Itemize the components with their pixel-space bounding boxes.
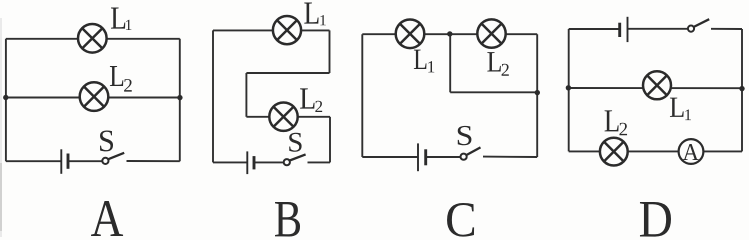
battery (circuit C) : long plate (417, 143, 419, 171)
wire C left vertical (361, 34, 363, 157)
lamp L1 (circuit A) (78, 24, 107, 53)
node A-right junction dot (177, 95, 182, 100)
wire C bottom battery-to-switch segment (426, 156, 461, 158)
lamp L2 (circuit A) (80, 82, 109, 111)
label L1 (circuit B) (304, 3, 318, 24)
node D-left junction dot (566, 85, 571, 90)
label S (circuit B) (289, 133, 301, 152)
wire B right lower vertical (329, 117, 331, 163)
switch S (circuit C) (461, 147, 481, 159)
scan edge artifact (0, 18, 2, 237)
wire D top battery-to-switch segment (628, 28, 688, 30)
wire A left vertical (5, 39, 7, 161)
battery (circuit C) : short plate (424, 149, 427, 165)
lamp L2 (circuit B) (269, 103, 297, 131)
lamp L1 (circuit D) (643, 71, 671, 99)
label A (answer) (91, 201, 123, 236)
label L2 (circuit B) (300, 88, 314, 108)
switch S (circuit B) (284, 154, 306, 165)
switch (circuit D) (688, 19, 709, 32)
node C junction dot (between lamps) (447, 31, 452, 36)
node C junction dot (right) (535, 90, 540, 95)
wire C bottom right segment (483, 156, 537, 158)
label B (answer) (275, 202, 300, 237)
wire C right vertical (536, 34, 538, 157)
label L2 (circuit A) (110, 66, 123, 86)
battery (circuit B) : short plate (253, 156, 256, 169)
wire A bottom right segment (127, 160, 180, 162)
wire D middle (569, 87, 742, 89)
wire D right vertical (741, 29, 743, 151)
lamp L2 (circuit C) (477, 19, 505, 47)
label S (circuit C) (458, 126, 472, 145)
lamp L1 (circuit B) (273, 16, 301, 44)
wire B bottom right segment (308, 161, 331, 163)
lamp L2 (circuit D) (600, 138, 628, 166)
label D (answer) (640, 202, 671, 237)
battery (circuit D) : long plate (627, 17, 629, 42)
label L1 (circuit D) (670, 98, 684, 117)
label L1 (circuit A) (111, 8, 125, 29)
wire D top right segment (711, 28, 742, 30)
battery (circuit B) : long plate (246, 151, 248, 174)
lamp L1 (circuit C) (396, 20, 425, 49)
wire C bottom left segment (362, 156, 418, 158)
wire C inner horizontal (450, 91, 537, 93)
wire B bottom battery-to-switch segment (254, 161, 284, 163)
battery (circuit D) : short plate (618, 23, 621, 37)
wire A bottom battery-to-switch segment (68, 160, 103, 162)
label L2 (circuit D) (605, 110, 619, 131)
wire B right upper vertical (329, 30, 331, 73)
label C (answer) (447, 203, 474, 237)
wire B middle horizontal (246, 72, 329, 74)
wire B top (213, 29, 330, 31)
wire D bottom (569, 150, 742, 152)
wire D top left segment (569, 28, 620, 30)
wire A bottom left segment (6, 160, 61, 162)
label L1 (circuit C) (414, 50, 427, 69)
wire B bottom left segment (213, 161, 247, 163)
battery (circuit A) : short plate (67, 154, 70, 169)
battery (circuit A) : long plate (60, 149, 62, 174)
node D-right junction dot (739, 86, 744, 91)
ammeter A1 (circuit D) (679, 139, 704, 164)
wire A top (6, 38, 180, 40)
wire A right vertical (179, 39, 181, 161)
node A-left junction dot (3, 95, 8, 100)
wire B middle vertical (245, 73, 247, 117)
label S (circuit A) (100, 131, 113, 152)
wire C top (362, 33, 537, 35)
switch S (circuit A) (102, 153, 124, 164)
wire B left vertical (212, 30, 214, 162)
wire A middle (6, 97, 180, 99)
wire D left vertical (568, 29, 570, 151)
label L2 (circuit C) (487, 52, 501, 71)
wire C inner vertical (449, 34, 451, 92)
wire B lamp row (246, 116, 330, 118)
